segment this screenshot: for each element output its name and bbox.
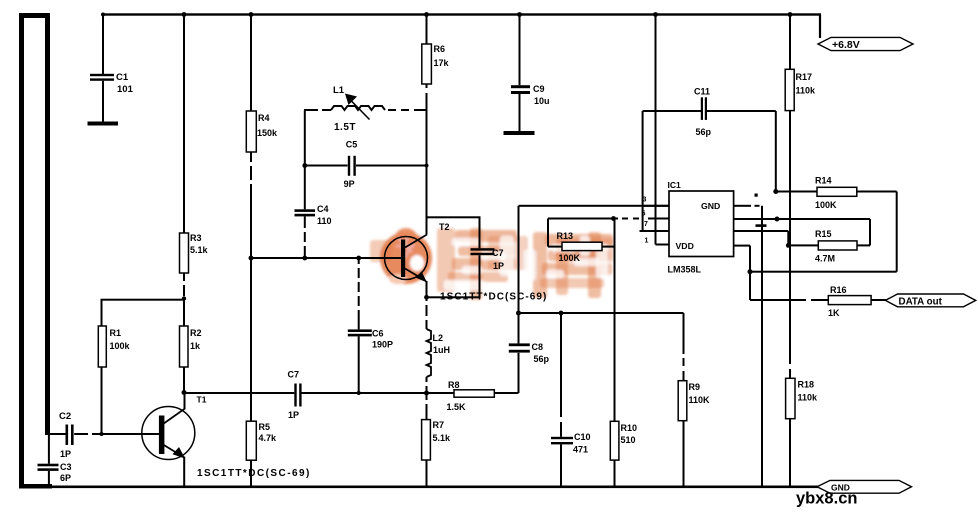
svg-text:110k: 110k [798, 393, 819, 403]
net tag DATA out [885, 294, 975, 308]
wire R15 loop right [857, 219, 871, 246]
resistor R2 [180, 326, 202, 367]
svg-text:1.5T: 1.5T [334, 122, 356, 133]
wire ground rail [50, 486, 818, 489]
svg-text:R3: R3 [190, 233, 202, 243]
wire detector node up to IC [518, 205, 670, 313]
svg-text:R18: R18 [798, 380, 815, 390]
capacitor C8 [509, 311, 550, 365]
transistor T1 [142, 395, 207, 460]
svg-text:LM358L: LM358L [668, 265, 702, 275]
svg-text:C8: C8 [532, 342, 544, 352]
wire R8 to C8 [494, 353, 519, 394]
capacitor C7 (upper) [471, 248, 505, 297]
svg-text:10u: 10u [534, 96, 550, 106]
capacitor C2 [59, 411, 74, 459]
ground (C9) [504, 131, 535, 135]
svg-text:1: 1 [645, 238, 649, 245]
capacitor C9 [511, 15, 550, 131]
wire bias node to R1 [101, 299, 185, 326]
wire IC pin 2 left line [548, 216, 669, 221]
wire collector to C7 top [427, 216, 481, 248]
resistor R3 [180, 233, 209, 273]
svg-text:1SC1TT*DC(SC-69): 1SC1TT*DC(SC-69) [197, 468, 311, 479]
resistor R17 [785, 69, 816, 110]
svg-text:510: 510 [621, 435, 636, 445]
op-amp IC1 box [668, 180, 734, 275]
svg-text:R6: R6 [434, 44, 446, 54]
resistor R13 [557, 231, 603, 263]
wire IC pin 7 right line [734, 217, 870, 222]
wire T1 collector line [184, 392, 455, 394]
label T1 part number [197, 468, 311, 479]
svg-text:56p: 56p [534, 354, 550, 364]
svg-text:100K: 100K [815, 200, 837, 210]
transistor T2 [385, 222, 450, 283]
svg-text:L1: L1 [333, 85, 345, 96]
wire R6 to tank [426, 84, 428, 235]
resistor R7 [422, 420, 451, 460]
svg-text:110K: 110K [689, 395, 711, 405]
capacitor C1 [90, 15, 134, 122]
antenna loop [19, 13, 52, 489]
wire GND pin to ground rail [761, 206, 763, 487]
wire output to R16 [750, 299, 828, 301]
svg-text:R2: R2 [190, 328, 202, 338]
net tag GND [817, 480, 912, 493]
wire L2 to node [424, 377, 429, 396]
resistor R14 [815, 176, 857, 211]
resistor R18 [786, 378, 818, 418]
svg-text:R16: R16 [830, 285, 847, 295]
svg-text:IC1: IC1 [668, 180, 682, 190]
wire R4 down [249, 152, 254, 261]
wire R13 right down [602, 219, 616, 422]
svg-text:100K: 100K [559, 253, 581, 263]
wire R15 left to pin 6 [734, 230, 819, 248]
wire rail to R17 [789, 15, 791, 69]
net tag +6.8V [818, 37, 913, 51]
svg-text:17k: 17k [434, 58, 450, 68]
svg-text:110k: 110k [796, 86, 817, 96]
wire rail to R4 [250, 15, 252, 111]
wire C11 right leg [773, 111, 778, 194]
wire R3 to node [182, 273, 186, 301]
svg-text:R10: R10 [621, 423, 638, 433]
resistor R16 [828, 285, 871, 318]
svg-text:56p: 56p [696, 127, 712, 137]
capacitor C6 [348, 258, 393, 395]
svg-text:150k: 150k [257, 128, 278, 138]
svg-text:471: 471 [573, 445, 588, 455]
wire feedback bottom [750, 192, 898, 273]
capacitor C11 [643, 87, 776, 138]
wire T1 collector up [184, 393, 186, 410]
svg-text:C1: C1 [116, 72, 129, 83]
wire R1 to base line [100, 367, 104, 436]
wire R10 to ground rail [614, 460, 616, 487]
svg-text:5.1k: 5.1k [433, 433, 452, 443]
resistor R1 [98, 326, 130, 367]
wire rail to R3 [183, 15, 185, 233]
capacitor C4 [295, 204, 332, 258]
wire R18 to ground rail [789, 419, 791, 487]
wire T1 base line [49, 433, 159, 435]
svg-text:110: 110 [317, 216, 332, 226]
wire node to R2 [183, 299, 185, 327]
capacitor C3 [38, 434, 72, 485]
svg-text:R7: R7 [433, 420, 445, 430]
svg-text:4.7k: 4.7k [259, 433, 278, 443]
svg-text:R8: R8 [448, 380, 460, 390]
svg-text:9P: 9P [344, 179, 355, 189]
wire R2 to collector node [182, 367, 187, 395]
svg-text:R4: R4 [258, 113, 270, 123]
svg-text:DATA out: DATA out [899, 297, 943, 308]
wire tank left [302, 110, 307, 209]
wire emitter down [426, 281, 428, 329]
label T2 part number [440, 292, 547, 303]
svg-text:C4: C4 [317, 204, 329, 214]
inductor L2 [427, 329, 451, 377]
svg-text:R15: R15 [815, 229, 832, 239]
svg-text:R13: R13 [557, 231, 574, 241]
svg-text:R14: R14 [815, 176, 832, 186]
wire R17 to R18 [789, 111, 791, 379]
capacitor C7 (lower) [288, 370, 302, 421]
svg-text:C11: C11 [694, 87, 710, 97]
wire IC pin 1 left [643, 205, 669, 207]
svg-text:1P: 1P [60, 449, 71, 459]
svg-text:C9: C9 [533, 84, 545, 94]
wire IC pin 5 output [734, 245, 753, 300]
wire T1 emitter down [183, 457, 185, 488]
wire rail to IC pin4 [655, 15, 657, 245]
resistor R10 [610, 421, 637, 460]
svg-text:R5: R5 [259, 422, 271, 432]
svg-text:GND: GND [701, 201, 720, 211]
resistor R6 [422, 44, 450, 84]
resistor R9 [678, 313, 710, 487]
svg-text:1P: 1P [493, 261, 504, 271]
svg-text:7: 7 [644, 221, 648, 228]
svg-text:T1: T1 [197, 395, 207, 405]
capacitor C5 [305, 140, 429, 190]
wire IC pin 3 left [640, 230, 670, 232]
inductor L1 [304, 85, 427, 133]
wire node to R7 [426, 393, 428, 420]
svg-text:R17: R17 [796, 72, 813, 82]
wire +6.8V top rail [101, 12, 821, 38]
wire C11 left leg [642, 111, 644, 231]
wire R16 to tag [871, 299, 886, 301]
svg-text:1P: 1P [288, 410, 299, 420]
svg-text:ybx8.cn: ybx8.cn [796, 490, 857, 508]
wire R5 to ground rail [250, 460, 252, 487]
svg-text:1k: 1k [190, 341, 201, 351]
resistor R5 [246, 421, 277, 460]
svg-text:C7: C7 [288, 370, 300, 380]
svg-text:C5: C5 [346, 140, 358, 150]
wire R14 legs [776, 191, 897, 193]
svg-text:1.5K: 1.5K [447, 402, 467, 412]
svg-text:R9: R9 [689, 382, 701, 392]
wire R7 to ground rail [426, 460, 428, 487]
svg-text:5.1k: 5.1k [190, 245, 209, 255]
svg-text:C6: C6 [372, 329, 384, 339]
ground (C1) [88, 122, 119, 126]
label ybx8.cn watermark [796, 490, 857, 508]
wire T2 base line [251, 256, 402, 261]
wire IC pin 4 left [656, 244, 670, 246]
resistor R8 [447, 380, 495, 412]
wire detector node line [519, 311, 684, 316]
svg-text:4.7M: 4.7M [815, 254, 835, 264]
wire R4 node down to R5 [250, 258, 252, 421]
wire R13 link [547, 219, 562, 248]
svg-text:1K: 1K [828, 308, 840, 318]
svg-text:6P: 6P [60, 473, 71, 483]
svg-text:101: 101 [117, 84, 134, 95]
svg-text:190P: 190P [372, 340, 393, 350]
svg-text:VDD: VDD [676, 241, 694, 251]
resistor R4 [246, 111, 278, 152]
svg-text:C10: C10 [574, 432, 591, 442]
wire emitter to C7 bottom [424, 295, 480, 300]
resistor R15 [815, 229, 857, 264]
capacitor C10 [551, 313, 591, 487]
svg-text:T2: T2 [439, 222, 450, 232]
svg-text:C7: C7 [492, 248, 504, 258]
svg-text:1uH: 1uH [433, 345, 450, 355]
label IC pin numbers [642, 197, 649, 245]
svg-text:C3: C3 [60, 462, 72, 472]
wire rail to R6 [426, 15, 428, 44]
svg-text:+6.8V: +6.8V [832, 39, 860, 51]
svg-text:L2: L2 [433, 333, 444, 343]
watermark logo and text (decorative) [370, 228, 614, 300]
wire IC pin 8 right (GND) [734, 194, 767, 227]
svg-text:C2: C2 [59, 411, 71, 422]
svg-text:R1: R1 [110, 328, 122, 338]
svg-text:100k: 100k [110, 341, 131, 351]
